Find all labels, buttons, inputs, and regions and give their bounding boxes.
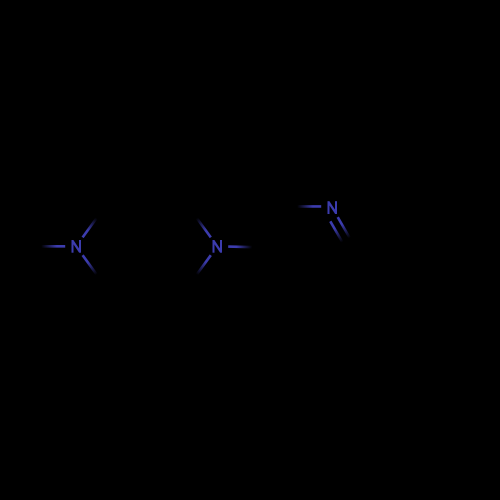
bond N1-C1d xyxy=(83,255,104,283)
bond N1-C1u xyxy=(83,209,104,237)
bond C3p-C4p pyridine xyxy=(286,286,332,289)
bond F2-C2d xyxy=(147,269,191,283)
bond F1-C2u xyxy=(147,209,191,223)
bond C2p-C3p pyridine xyxy=(332,247,355,287)
bond F1-F2 fusion xyxy=(145,223,148,269)
bond C1d-F2 xyxy=(103,269,147,283)
atom N3 pyridine label (letter N drawn as vector shapes) xyxy=(328,201,338,214)
bond C2d-N2 xyxy=(190,255,211,283)
bond C6-N3 pyridine top edge xyxy=(286,205,321,208)
bond N3=C2p main line xyxy=(338,217,356,247)
bond C4p-C5 pyridine xyxy=(263,247,286,287)
bond C2u-N2 xyxy=(190,209,211,237)
bond N2-C5 to pyridine xyxy=(228,245,263,248)
bond CH3-N1 (methyl) xyxy=(33,245,65,248)
bond C1u-F1 xyxy=(103,209,147,223)
phenyl ring xyxy=(401,208,493,288)
bond C5-C6 pyridine xyxy=(263,208,286,248)
bond N3=C2p inner double line xyxy=(330,221,345,246)
atom N1 label (letter N drawn as vector shapes) xyxy=(72,240,82,253)
bond C2p-Ph1 biphenyl link xyxy=(355,246,401,249)
atom N2 label (letter N drawn as vector shapes) xyxy=(213,240,223,253)
invisible carbon skeleton (black on black), pyrrolopyrrole fused rings xyxy=(103,208,493,288)
